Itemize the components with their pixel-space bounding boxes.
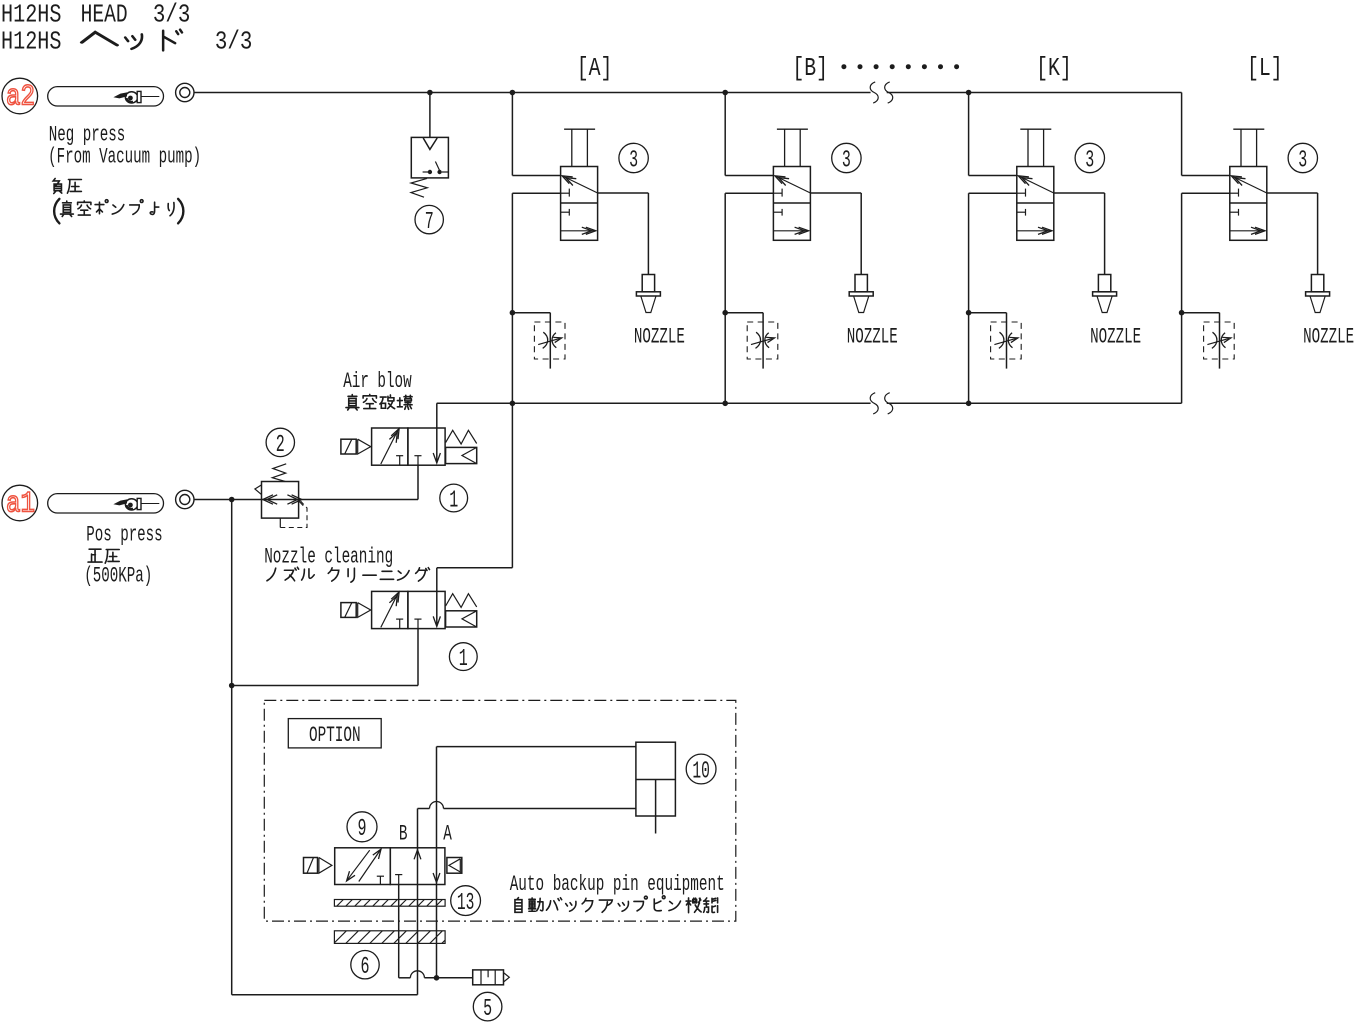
- svg-text:3/3: 3/3: [215, 27, 253, 56]
- svg-text:3: 3: [1085, 147, 1094, 174]
- svg-text:9: 9: [358, 816, 367, 843]
- svg-text:Auto backup pin equipment: Auto backup pin equipment: [510, 872, 725, 897]
- svg-text:NOZZLE: NOZZLE: [634, 325, 685, 350]
- svg-text:a2: a2: [6, 81, 35, 115]
- svg-text:[A]: [A]: [577, 54, 613, 83]
- svg-text:OPTION: OPTION: [309, 723, 361, 748]
- svg-text:A: A: [443, 822, 452, 847]
- svg-text:3/3: 3/3: [153, 1, 191, 30]
- svg-text:H12HS: H12HS: [1, 27, 62, 56]
- svg-text:HEAD: HEAD: [81, 1, 128, 30]
- svg-text:13: 13: [457, 890, 475, 917]
- svg-text:NOZZLE: NOZZLE: [847, 325, 898, 350]
- svg-text:a1: a1: [6, 488, 35, 522]
- svg-text:1: 1: [449, 487, 458, 514]
- svg-text:[K]: [K]: [1036, 54, 1072, 83]
- svg-text:2: 2: [276, 432, 285, 459]
- svg-text:NOZZLE: NOZZLE: [1303, 325, 1354, 350]
- svg-text:6: 6: [361, 954, 370, 981]
- svg-text:3: 3: [1298, 147, 1307, 174]
- svg-text:Pos press: Pos press: [86, 522, 163, 547]
- svg-text:H12HS: H12HS: [1, 1, 62, 30]
- svg-text:(500KPa): (500KPa): [84, 564, 152, 589]
- svg-text:[L]: [L]: [1247, 54, 1283, 83]
- svg-text:(From Vacuum pump): (From Vacuum pump): [48, 144, 201, 169]
- svg-text:Air blow: Air blow: [343, 369, 412, 394]
- svg-text:3: 3: [842, 147, 851, 174]
- svg-text:3: 3: [629, 147, 638, 174]
- svg-text:B: B: [399, 822, 408, 847]
- svg-text:Nozzle cleaning: Nozzle cleaning: [264, 545, 393, 570]
- svg-text:[B]: [B]: [792, 54, 828, 83]
- svg-text:1: 1: [459, 646, 468, 673]
- svg-text:NOZZLE: NOZZLE: [1090, 325, 1141, 350]
- svg-text:5: 5: [483, 996, 492, 1023]
- svg-text:7: 7: [425, 209, 434, 236]
- svg-text:10: 10: [692, 758, 710, 785]
